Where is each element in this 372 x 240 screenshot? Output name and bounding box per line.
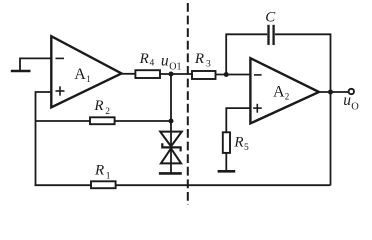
- svg-text:1: 1: [86, 74, 91, 84]
- zener diode DZ bottom (pointing up): [161, 148, 181, 163]
- svg-text:R: R: [93, 98, 103, 114]
- svg-text:2: 2: [105, 107, 110, 117]
- svg-text:R: R: [94, 163, 104, 179]
- op-amp A1: [51, 36, 121, 107]
- label u_O: [343, 92, 359, 113]
- zener bar (shared cathode): [162, 143, 180, 151]
- label C: [265, 10, 276, 26]
- svg-text:3: 3: [206, 60, 211, 70]
- svg-text:C: C: [265, 10, 276, 26]
- wire R5 to ground: [225, 153, 227, 171]
- wire A1 non-inverting input to node A: [36, 92, 52, 121]
- svg-text:R: R: [233, 135, 243, 151]
- output terminal u_O: [349, 89, 354, 94]
- svg-text:5: 5: [244, 143, 249, 153]
- resistor R5: [223, 132, 230, 153]
- wire A1 output to R4: [122, 73, 137, 75]
- wire A2 non-inverting input to R5: [226, 108, 250, 132]
- label R4: [139, 51, 155, 68]
- dashed separator line: [187, 3, 189, 205]
- ground (A1 inverting input): [11, 70, 31, 73]
- capacitor C: [269, 25, 274, 45]
- svg-text:A: A: [74, 66, 86, 83]
- wire node A down to bottom rail: [35, 121, 37, 186]
- wire node A to R2: [36, 120, 92, 122]
- svg-text:O1: O1: [169, 62, 181, 73]
- wire R3 to node C (A2 inverting input): [216, 74, 251, 76]
- svg-text:A: A: [273, 84, 285, 101]
- wire R4 to node u_O1: [160, 73, 192, 75]
- wire bottom rail left segment to R1: [35, 184, 92, 186]
- svg-text:4: 4: [150, 59, 155, 69]
- resistor R3: [192, 71, 216, 79]
- node C junction: [224, 72, 229, 77]
- label R2: [93, 98, 110, 117]
- output node junction: [328, 90, 333, 95]
- label R3: [194, 51, 211, 70]
- wire A2 output to terminal: [319, 91, 348, 93]
- wire node u_O1 down through node B to zener stack: [170, 74, 172, 173]
- svg-text:u: u: [161, 53, 169, 70]
- zener diode DZ top (pointing down): [160, 132, 182, 147]
- ground (zener stack): [159, 172, 182, 175]
- ground (R5): [218, 170, 236, 173]
- op-amp A2: [250, 58, 319, 123]
- svg-text:2: 2: [285, 92, 290, 102]
- label R1: [94, 163, 111, 182]
- wire R2 to node B: [114, 120, 171, 122]
- svg-text:R: R: [194, 51, 204, 67]
- wire bottom rail right segment from R1 to output vertical: [115, 184, 331, 186]
- resistor R4: [135, 70, 160, 78]
- resistor R2: [90, 117, 115, 124]
- wire A1 inverting input to ground: [20, 58, 51, 70]
- resistor R1: [91, 181, 116, 188]
- svg-text:u: u: [343, 92, 351, 109]
- svg-text:1: 1: [106, 171, 111, 181]
- wire node C up to capacitor: [226, 34, 267, 74]
- node B junction: [169, 119, 174, 124]
- wire capacitor to output node: [275, 34, 331, 92]
- label u_O1: [161, 53, 182, 73]
- svg-text:O: O: [351, 102, 359, 113]
- svg-text:R: R: [139, 51, 149, 67]
- label R5: [233, 135, 249, 154]
- node u_O1: [169, 72, 174, 77]
- wire output node down to bottom rail: [330, 92, 332, 185]
